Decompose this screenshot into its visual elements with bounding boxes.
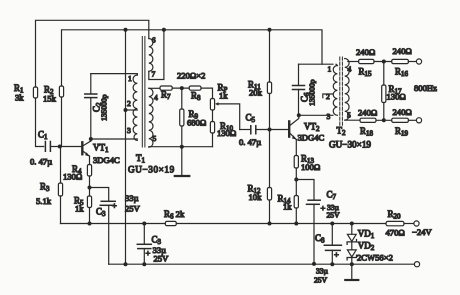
node bottom cap on mid rail — [142, 222, 146, 226]
wire VT1 emitter down — [89, 156, 91, 165]
transformer T1 winding 6-7 — [149, 36, 156, 79]
svg-text:+: + — [321, 203, 326, 213]
svg-text:25V: 25V — [327, 211, 341, 220]
capacitor C6 — [293, 64, 317, 115]
wire RP to R10 — [212, 110, 214, 122]
label 800Hz — [414, 83, 437, 93]
wire VT2 collector to T2 pin3 — [299, 114, 333, 116]
svg-text:130Ω: 130Ω — [63, 172, 82, 182]
resistor R13 — [294, 154, 320, 173]
svg-text:15k: 15k — [43, 94, 57, 104]
resistor R3 — [36, 182, 63, 207]
svg-text:R19: R19 — [395, 126, 409, 138]
svg-text:GU−30×19: GU−30×19 — [329, 140, 371, 150]
svg-text:1k: 1k — [75, 204, 84, 214]
svg-text:R7: R7 — [161, 90, 171, 102]
svg-text:1k: 1k — [219, 91, 228, 101]
resistor R8 — [189, 86, 201, 102]
resistor R12 — [248, 130, 272, 224]
resistor R5 — [74, 196, 92, 214]
svg-text:10k: 10k — [249, 192, 263, 202]
svg-text:0. 47µ: 0. 47µ — [239, 137, 261, 147]
resistor R2 — [43, 85, 64, 104]
wire R18 to node E — [376, 119, 392, 121]
node bottom cap on bottom rail — [142, 262, 146, 266]
svg-text:3DG4C: 3DG4C — [93, 155, 120, 165]
resistor R18 — [358, 108, 377, 138]
wire R19 to output terminal — [408, 119, 416, 121]
terminal output lower — [416, 118, 421, 123]
svg-text:0. 47µ: 0. 47µ — [30, 157, 52, 167]
svg-text:6: 6 — [152, 36, 156, 45]
node R14 on mid rail — [294, 222, 298, 226]
svg-text:33µ: 33µ — [316, 267, 329, 276]
svg-text:2: 2 — [326, 92, 330, 101]
resistor R15 — [356, 47, 375, 78]
svg-text:VT1: VT1 — [93, 143, 109, 155]
svg-text:5: 5 — [153, 134, 157, 143]
svg-text:R20: R20 — [388, 209, 402, 221]
svg-text:R3: R3 — [40, 182, 50, 194]
resistor R11 — [248, 30, 272, 130]
svg-text:−24V: −24V — [412, 227, 432, 237]
wire R15 to node D — [374, 61, 392, 63]
svg-text:7: 7 — [152, 70, 156, 79]
svg-text:T2: T2 — [337, 126, 347, 138]
resistor R6 — [164, 209, 185, 226]
resistor R10 — [210, 121, 236, 138]
potentiometer RP — [210, 83, 239, 130]
svg-text:220Ω×2: 220Ω×2 — [177, 71, 205, 81]
svg-text:800Hz: 800Hz — [414, 83, 437, 93]
wire pin1 feed horizontal — [91, 74, 138, 76]
transformer T2 primary taps 1-2-3 — [323, 64, 338, 121]
transformer T2 secondary 4-5 — [345, 58, 352, 120]
label T1 — [128, 153, 175, 175]
svg-text:240Ω: 240Ω — [358, 108, 377, 118]
svg-text:R16: R16 — [395, 67, 409, 79]
svg-text:+: + — [112, 201, 117, 211]
node R4/R5/C3 junction — [88, 186, 92, 190]
transformer T1 core — [142, 37, 145, 148]
wire R4 to R5 — [89, 176, 91, 196]
svg-text:1: 1 — [128, 74, 132, 83]
wire R20 to terminal — [404, 223, 414, 225]
wire mid rail (left of R6) — [61, 223, 166, 225]
resistor R17 — [382, 62, 406, 121]
ground below VD2 — [345, 264, 358, 280]
svg-text:3: 3 — [327, 112, 331, 121]
svg-text:33µ: 33µ — [125, 193, 139, 203]
svg-text:R6 2k: R6 2k — [164, 209, 185, 221]
transistor VT2 — [289, 115, 324, 142]
resistor R16 — [392, 46, 412, 78]
wire pin5 to R18 — [346, 119, 361, 121]
capacitor C1 — [30, 130, 52, 167]
node vertical on rail2 — [124, 28, 128, 32]
ground T1 secondary — [175, 147, 190, 176]
wire T1 center vertical (rail2 to bottom rail) — [125, 30, 127, 264]
node R9/ground on pin5 wire — [180, 145, 184, 149]
svg-text:VD2: VD2 — [358, 241, 375, 253]
svg-text:C1: C1 — [38, 130, 48, 142]
wire top rail 1 (pin6 feed) — [36, 20, 149, 87]
capacitor C5 — [239, 113, 261, 148]
svg-text:240Ω: 240Ω — [356, 47, 375, 57]
node A junction — [58, 145, 62, 149]
svg-text:470Ω: 470Ω — [386, 228, 405, 238]
wire top rail 2 — [62, 30, 323, 86]
wire pin4 to R7 — [149, 87, 160, 89]
node R7/R8/R9 junction — [180, 86, 184, 90]
svg-text:240Ω: 240Ω — [393, 107, 412, 117]
resistor R9 — [180, 88, 207, 147]
svg-text:680Ω: 680Ω — [187, 118, 206, 128]
capacitor C3 filter (bottom) — [137, 224, 169, 265]
svg-text:C5: C5 — [246, 113, 256, 125]
wire tap 2 lead — [126, 109, 138, 111]
resistor R19 — [392, 107, 412, 138]
wire RP wiper to C5 — [240, 129, 251, 131]
wire R16 to output terminal — [408, 61, 416, 63]
label T2 — [329, 126, 371, 150]
svg-text:25V: 25V — [314, 276, 328, 285]
node VD1 on mid rail — [350, 222, 354, 226]
capacitor C2 — [85, 74, 109, 139]
capacitor C7 — [296, 180, 340, 264]
terminal lower — [414, 262, 419, 267]
node C2/collector junction — [89, 137, 93, 141]
node C8 on bottom rail — [330, 262, 334, 266]
svg-text:135000p: 135000p — [100, 94, 109, 121]
transformer T1 primary winding taps 1-2-3 — [127, 74, 137, 141]
terminal output upper — [416, 59, 421, 64]
svg-text:1k: 1k — [283, 202, 292, 212]
svg-text:135000p: 135000p — [308, 79, 317, 106]
svg-text:130Ω: 130Ω — [217, 128, 236, 138]
label -24V — [412, 227, 432, 237]
terminal -24V upper — [414, 221, 419, 226]
wire R8 to RP — [201, 88, 213, 98]
node pin7 on rail2 — [162, 28, 166, 32]
capacitor C3 emitter bypass — [90, 188, 141, 219]
svg-text:100Ω: 100Ω — [301, 162, 320, 172]
zener diode VD2 — [347, 241, 393, 265]
wire pin 5 row — [149, 146, 213, 148]
node vertical on bottom rail — [124, 262, 128, 266]
svg-text:3: 3 — [127, 126, 131, 135]
svg-text:T1: T1 — [136, 153, 146, 165]
resistor R7 — [160, 86, 172, 101]
node C6/collector — [297, 113, 301, 117]
node VD2 on bottom rail — [350, 262, 354, 266]
wire C6 top to T2 pin1 — [299, 63, 334, 65]
wire C3 down to bottom rail corner — [108, 205, 110, 264]
svg-text:R8: R8 — [191, 91, 201, 103]
node C (R13/R14/C7) — [294, 178, 298, 182]
svg-text:130Ω: 130Ω — [387, 92, 406, 102]
svg-text:4: 4 — [348, 65, 352, 74]
node R12 on mid rail — [268, 222, 272, 226]
wire R13 to node C — [295, 168, 297, 196]
svg-text:240Ω: 240Ω — [393, 46, 412, 56]
wire R2 to node A — [61, 97, 63, 147]
svg-text:VT2: VT2 — [304, 122, 320, 134]
svg-text:1: 1 — [328, 65, 332, 74]
svg-text:R18: R18 — [360, 126, 374, 138]
wire R7 to junction — [172, 87, 189, 89]
zener diode VD1 — [347, 224, 375, 245]
node C7 on bottom rail — [312, 262, 316, 266]
wire VT1 collector up — [90, 139, 92, 141]
wire R1 to C1 — [36, 98, 44, 147]
svg-text:VD1: VD1 — [358, 229, 375, 241]
svg-text:C8: C8 — [315, 233, 325, 245]
wire R3 branch — [60, 147, 62, 224]
svg-text:GU−30×19: GU−30×19 — [128, 165, 175, 175]
svg-text:3k: 3k — [15, 93, 24, 103]
wire mid rail (right of R6) — [176, 223, 386, 225]
transformer T1 winding 4-5 — [149, 88, 158, 147]
svg-text:5.1k: 5.1k — [36, 196, 52, 206]
resistor R1 — [14, 83, 38, 103]
wire bottom rail — [109, 263, 415, 265]
svg-text:+: + — [334, 250, 339, 260]
resistor R14 — [278, 194, 299, 212]
wire VT1 collector to tap 3 — [91, 138, 138, 140]
svg-text:25V: 25V — [154, 254, 170, 264]
wire R5 to mid rail — [89, 208, 91, 224]
wire R14 to mid rail — [295, 208, 297, 224]
wire pin4 to R15 — [348, 61, 359, 63]
svg-text:+: + — [146, 248, 151, 258]
node tap2 — [124, 108, 128, 112]
node B (R11/R12/C5/base) — [268, 128, 272, 132]
node R5 on mid rail — [88, 222, 92, 226]
svg-text:4: 4 — [154, 93, 158, 102]
svg-text:2: 2 — [127, 99, 131, 108]
resistor R4 — [63, 164, 92, 182]
wire C5 to base node B — [256, 129, 288, 131]
resistor R20 — [386, 209, 405, 238]
wire VT2 emitter down — [295, 140, 297, 156]
label 220ohm x2 — [177, 71, 205, 81]
svg-text:C7: C7 — [327, 190, 337, 202]
wire R10 to pin5 row — [212, 133, 214, 147]
capacitor C8 — [314, 224, 341, 285]
svg-text:20k: 20k — [249, 88, 263, 98]
svg-text:3DG4C: 3DG4C — [298, 133, 325, 143]
wire pin 7 to rail 2 — [149, 30, 164, 80]
wire C1 to base node A — [50, 146, 81, 148]
svg-text:25V: 25V — [125, 204, 141, 214]
svg-text:R15: R15 — [359, 67, 373, 79]
svg-text:2CW56×2: 2CW56×2 — [357, 253, 393, 263]
node R11 on rail2 — [268, 28, 272, 32]
node C8 on mid rail — [330, 222, 334, 226]
svg-text:5: 5 — [347, 111, 351, 120]
svg-text:C3: C3 — [96, 207, 106, 219]
transformer T2 core — [340, 57, 343, 126]
node D (R15/R16/R17) — [382, 60, 386, 64]
transistor VT1 — [82, 141, 120, 165]
node E (R18/R19/R17) — [382, 118, 386, 122]
